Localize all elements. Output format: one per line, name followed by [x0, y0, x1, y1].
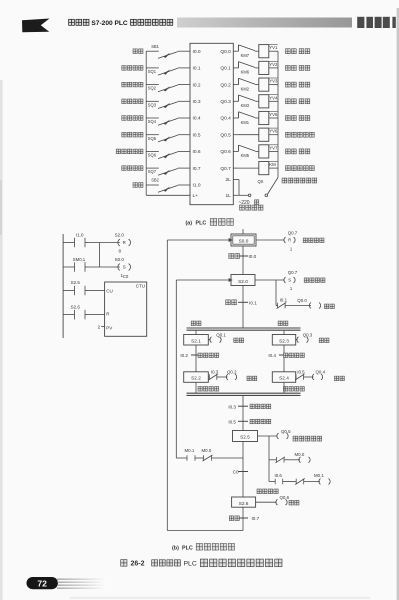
svg-text:PLC: PLC [182, 545, 193, 551]
branch M0.1 M0.0 back-jump wire [176, 457, 187, 459]
arrowhead into S2.0 [229, 278, 233, 282]
svg-text:YV6: YV6 [269, 129, 278, 134]
transition I0.7 (松开) [238, 517, 248, 519]
page edge shading [0, 80, 3, 600]
svg-text:KM1: KM1 [241, 120, 250, 125]
svg-text:KM6: KM6 [241, 70, 250, 75]
svg-text:SB1: SB1 [151, 44, 159, 49]
svg-text:SB2: SB2 [151, 178, 159, 183]
contact SM0.1 [63, 266, 70, 268]
wire to CU [89, 290, 105, 292]
svg-text:S2.6: S2.6 [71, 304, 81, 309]
state S2.0 [231, 275, 255, 286]
label 钻头旋转 [304, 278, 325, 283]
label 钻头停止 [303, 238, 324, 243]
contact KM1 [238, 112, 240, 118]
coil KM [259, 162, 269, 175]
svg-text:SQ7: SQ7 [148, 169, 157, 174]
wire to S2.3 [283, 330, 285, 334]
svg-text:I0.4: I0.4 [268, 353, 276, 358]
svg-text:C0: C0 [123, 274, 129, 279]
inner loop wire to S2.0 [175, 280, 177, 458]
input common bus wire [145, 51, 147, 195]
wire Q0.0 to output branch [233, 50, 238, 52]
svg-text:KM5: KM5 [241, 153, 250, 158]
svg-text:I0.6: I0.6 [193, 149, 201, 155]
svg-text:I0.1: I0.1 [249, 301, 257, 306]
output label 主轴电动机 [286, 166, 315, 171]
svg-text:Q0.1: Q0.1 [216, 333, 226, 338]
svg-text:I0.7: I0.7 [252, 516, 260, 521]
switch SB1 (起动) [146, 50, 159, 52]
svg-text:SQ3: SQ3 [148, 102, 157, 107]
svg-text:Q0.7: Q0.7 [220, 166, 231, 172]
output label 小钻下降 [286, 99, 297, 104]
transition I0.2 (大钻下限) [191, 354, 201, 356]
svg-text:Q0.7: Q0.7 [288, 230, 298, 235]
contact KM3 [238, 95, 240, 101]
input label 工件夹紧 [122, 66, 143, 71]
wire S2.2 to convergence [195, 382, 197, 393]
action coil Q0.0 (夹紧) [309, 303, 311, 309]
contact NC M0.0 [203, 455, 205, 461]
input label 小钻上限 [122, 132, 143, 137]
svg-text:SQ1: SQ1 [148, 69, 157, 74]
state S2.6 [232, 497, 256, 507]
wire to Q0.0 coil [285, 305, 311, 307]
coil YV5 [259, 111, 269, 124]
svg-text:S2.5: S2.5 [71, 280, 81, 285]
wire Q0.2 to output branch [233, 84, 238, 86]
svg-text:S: S [288, 278, 291, 283]
contact I1.0 [63, 242, 70, 244]
input label 工件松开 [122, 166, 143, 171]
wire coil YV3 to bus [269, 84, 278, 86]
svg-text:S2.0: S2.0 [238, 279, 248, 284]
wire coil YV5 to bus [269, 117, 278, 119]
svg-text:Q0.5: Q0.5 [220, 132, 231, 138]
action coil Q0.1 (下降) [208, 339, 210, 341]
svg-text:I0.3: I0.3 [211, 370, 219, 375]
svg-text:SQ4: SQ4 [148, 119, 157, 124]
svg-text:S2.2: S2.2 [191, 376, 201, 381]
page number speed lines [57, 579, 107, 580]
loop return wire bottom [167, 530, 243, 532]
wire S2.4 to convergence [283, 382, 285, 393]
svg-text:YV2: YV2 [269, 62, 278, 67]
wire coil YV4 to bus [269, 100, 278, 102]
coil YV6 [259, 128, 269, 141]
svg-text:Q0.1: Q0.1 [220, 66, 231, 72]
action I0.6 NC coil M0.1 [269, 481, 275, 483]
transition I0.0 (起动) [238, 255, 248, 257]
svg-text:I0.5: I0.5 [193, 132, 201, 138]
svg-text:Q0.0: Q0.0 [220, 49, 231, 55]
svg-text:Q0.7: Q0.7 [288, 270, 298, 275]
svg-text:(b): (b) [172, 545, 179, 551]
svg-text:YV5: YV5 [269, 112, 278, 117]
wire S2.5 action branch [268, 436, 270, 482]
svg-text:KM3: KM3 [241, 103, 250, 108]
coil S S0.0 1 [118, 264, 120, 271]
svg-text:I1.0: I1.0 [193, 183, 201, 189]
input label 小钻下限 [122, 116, 143, 121]
wire S2.5 action row [258, 435, 278, 437]
svg-text:YV3: YV3 [269, 79, 278, 84]
counter C0 box CTU [105, 282, 147, 336]
svg-text:SM0.1: SM0.1 [73, 257, 86, 262]
svg-text:M0.1: M0.1 [185, 448, 195, 453]
svg-text:72: 72 [37, 578, 47, 588]
svg-text:YV1: YV1 [269, 45, 278, 50]
output label 大钻上升 [286, 82, 297, 87]
action coil Q0.6 (松开) [276, 499, 278, 505]
action NC contact coil M0.0 [269, 459, 277, 461]
state S2.3 [272, 335, 295, 346]
transition I0.3 (大钻上限) [238, 405, 248, 407]
svg-text:I1.0: I1.0 [76, 232, 84, 237]
label 输出电源开关 [282, 178, 317, 183]
svg-text:I0.4: I0.4 [193, 116, 201, 122]
coil YV7 [259, 145, 269, 158]
switch SQ6 (工作台转位) [146, 150, 159, 152]
label 夹紧 [325, 304, 335, 309]
state S2.4 [272, 372, 295, 383]
initial wire stub [242, 229, 244, 234]
wire S0.0 to S2.0 [242, 246, 244, 275]
header logo arrow [22, 19, 50, 33]
wire coil YV7 to bus [269, 150, 278, 152]
svg-text:QS: QS [258, 179, 264, 184]
label 小钻 [278, 321, 288, 326]
wire coil YV2 to bus [269, 67, 278, 69]
svg-text:R: R [123, 240, 126, 245]
label 小钻上限 under contact [284, 387, 305, 392]
svg-text:M0.0: M0.0 [295, 452, 305, 457]
wire S0.0 action [256, 239, 285, 241]
switch SQ3 (大钻上限) [146, 100, 159, 102]
output label 工件松开 [286, 149, 297, 154]
coil YV3 [259, 78, 269, 91]
action coil Q0.3 (下降) [296, 339, 298, 341]
svg-text:2L: 2L [225, 177, 231, 183]
transition I0.4 (小钻下限) [279, 354, 289, 356]
svg-text:CU: CU [106, 289, 113, 294]
input label 大钻下限 [122, 82, 143, 87]
svg-text:Q0.3: Q0.3 [303, 333, 313, 338]
output label 小钻上升 [286, 116, 297, 121]
svg-text:C0: C0 [233, 470, 239, 475]
wire rung2 [89, 266, 120, 268]
svg-text:I0.5: I0.5 [228, 420, 236, 425]
svg-text:I0.1: I0.1 [280, 298, 288, 303]
svg-text:I0.0: I0.0 [249, 254, 257, 259]
output common bus wire [277, 51, 279, 177]
supply terminal right [265, 194, 268, 197]
wire coil YV6 to bus [269, 134, 278, 136]
input label 大钻上限 [122, 99, 143, 104]
svg-text:S2.6: S2.6 [239, 501, 249, 506]
wire branch rung1-rung2 [99, 243, 101, 268]
output label 工作台转动 [286, 132, 315, 137]
svg-text:M0.0: M0.0 [202, 448, 212, 453]
outer loop wire to S0.0 [166, 240, 168, 531]
page number capsule 72 [27, 577, 59, 589]
wire Q0.5 to output branch [233, 134, 238, 136]
switch QS (output power) [268, 178, 279, 195]
svg-text:Q0.2: Q0.2 [220, 82, 231, 88]
svg-text:PLC: PLC [196, 220, 207, 226]
figure caption 图26-2 组合钻床PLC接线图和状态转移图 [121, 560, 127, 567]
svg-text:R: R [288, 238, 291, 243]
svg-text:S0.0: S0.0 [239, 239, 249, 244]
parallel divergence double bar [187, 327, 301, 329]
svg-text:SQ2: SQ2 [148, 86, 157, 91]
svg-text:I0.1: I0.1 [193, 66, 201, 72]
wire S2.6 down [242, 507, 244, 530]
svg-text:S2.1: S2.1 [191, 338, 201, 343]
wire coil YV1 to bus [269, 50, 278, 52]
supply terminal left [248, 194, 251, 197]
svg-text:I0.6: I0.6 [275, 473, 283, 478]
transition C0 counter [238, 471, 248, 473]
wire S2.0 action branch [275, 280, 277, 306]
input label 停止 [133, 183, 143, 188]
wire S2.6 action [256, 501, 277, 503]
action coil R Q0.7 1 (钻头停止) [284, 237, 286, 243]
wire 2L jog [233, 179, 239, 181]
output label 大钻下降 [286, 65, 297, 70]
svg-text:26-2: 26-2 [131, 561, 145, 568]
transition I0.1 (夹紧) [238, 301, 248, 303]
switch SQ2 (大钻下限) [146, 84, 159, 86]
svg-text:CTU: CTU [136, 284, 145, 289]
svg-text:S0.0: S0.0 [115, 257, 125, 262]
label 大钻 [191, 321, 201, 326]
svg-text:1L: 1L [225, 193, 231, 199]
wire 1L to supply terminal [233, 194, 248, 196]
output label 工件夹紧 [286, 49, 297, 54]
contact KM5 [238, 145, 240, 151]
state S0.0 (initial, double border) [231, 234, 256, 246]
wire convergence to S2.5 [242, 395, 244, 430]
state S2.5 [233, 431, 258, 442]
svg-text:SQ5: SQ5 [148, 136, 157, 141]
svg-text:Q0.6: Q0.6 [220, 149, 231, 155]
svg-text:I0.5: I0.5 [297, 370, 305, 375]
transition I0.5 (小钻上限) [238, 420, 248, 422]
action NC I0.5 coil Q0.4 (上升) [295, 376, 297, 378]
svg-text:Q0.3: Q0.3 [220, 99, 231, 105]
wire S2.0 down [242, 286, 244, 329]
svg-text:M0.1: M0.1 [314, 473, 324, 478]
wire to S2.1 [195, 330, 197, 334]
contact KM7 [238, 45, 240, 51]
wire rung1 [89, 242, 120, 244]
label 回转到位 [257, 489, 278, 494]
svg-text:KM2: KM2 [241, 86, 250, 91]
svg-text:I0.0: I0.0 [193, 49, 201, 55]
PLC module box [190, 43, 233, 204]
coil YV2 [259, 61, 269, 74]
wire S2.0 action row [255, 279, 285, 281]
action NC I0.3 coil Q0.2 (上升) [208, 376, 209, 378]
action coil Q0.5 (回转台转动) [277, 433, 279, 439]
switch SQ1 (工件夹紧) [146, 67, 159, 69]
contact S2.5 (CU input) [63, 290, 70, 292]
parallel convergence double bar [187, 392, 301, 394]
svg-text:SQ6: SQ6 [148, 153, 157, 158]
svg-text:I0.3: I0.3 [193, 99, 201, 105]
coil R S2.0 8 [118, 239, 120, 246]
svg-text:Q0.6: Q0.6 [280, 495, 290, 500]
svg-text:Q0.4: Q0.4 [316, 370, 326, 375]
wire Q0.4 to output branch [233, 117, 238, 119]
switch SQ4 (小钻下限) [146, 117, 159, 119]
svg-text:Q0.4: Q0.4 [220, 116, 231, 122]
switch SB2 (停止) [146, 184, 159, 186]
header title 西门子 S7-200 PLC 编程实例精解 [69, 19, 89, 25]
svg-text:I0.2: I0.2 [180, 353, 188, 358]
svg-text:I0.2: I0.2 [193, 82, 201, 88]
input label 起动 [133, 49, 143, 54]
svg-text:YV7: YV7 [269, 145, 278, 150]
wire Q0.1 to output branch [233, 67, 238, 69]
coil YV1 [259, 45, 269, 58]
svg-text:S2.3: S2.3 [279, 338, 289, 343]
header index blocks [357, 17, 364, 28]
svg-text:S2.4: S2.4 [279, 376, 289, 381]
wire S2.3 to S2.4 [283, 345, 285, 372]
wire branch to main line [212, 457, 244, 459]
svg-text:YV4: YV4 [269, 95, 278, 100]
svg-text:I0.3: I0.3 [228, 404, 236, 409]
state S2.1 [184, 335, 209, 346]
contact S2.6 (R input) [63, 314, 70, 316]
action coil S Q0.7 1 (钻头旋转) [284, 277, 286, 283]
state S2.2 [184, 372, 209, 383]
wire coil KM to bus [269, 167, 278, 169]
wire Q0.7 to output branch [233, 167, 238, 169]
contact M0.1 [186, 455, 188, 461]
wire S2.1 to S2.2 [195, 345, 197, 372]
svg-text:S: S [123, 265, 126, 270]
svg-text:Q0.5: Q0.5 [281, 429, 291, 434]
svg-text:S7-200 PLC: S7-200 PLC [91, 20, 128, 27]
wire S2.5 to S2.6 [242, 442, 244, 498]
svg-text:S2.5: S2.5 [240, 435, 250, 440]
svg-text:S2.0: S2.0 [115, 232, 125, 237]
contact KM2 [238, 78, 240, 84]
svg-text:KM7: KM7 [241, 53, 250, 58]
svg-text:I0.7: I0.7 [193, 166, 201, 172]
input label 工作台转位 [116, 149, 143, 154]
wire Q0.6 to output branch [233, 150, 238, 152]
arrowhead into S0.0 [229, 238, 233, 242]
wire to R [89, 314, 105, 316]
svg-text:(a): (a) [186, 220, 193, 226]
wire Q0.3 to output branch [233, 100, 238, 102]
coil YV4 [259, 95, 269, 108]
contact NC I0.1 [277, 303, 279, 309]
svg-text:KM: KM [269, 162, 276, 167]
svg-text:PLC: PLC [184, 561, 197, 568]
ladder left power rail [62, 234, 64, 338]
switch SQ7 (工件松开) [146, 167, 159, 169]
svg-text:L+: L+ [193, 193, 199, 199]
switch SQ5 (小钻上限) [146, 134, 159, 136]
svg-text:PV: PV [106, 325, 112, 330]
label 大钻上限 under contact [198, 387, 219, 392]
svg-text:Q0.0: Q0.0 [297, 298, 307, 303]
svg-text:Q0.2: Q0.2 [227, 370, 237, 375]
contact KM6 [238, 62, 240, 68]
